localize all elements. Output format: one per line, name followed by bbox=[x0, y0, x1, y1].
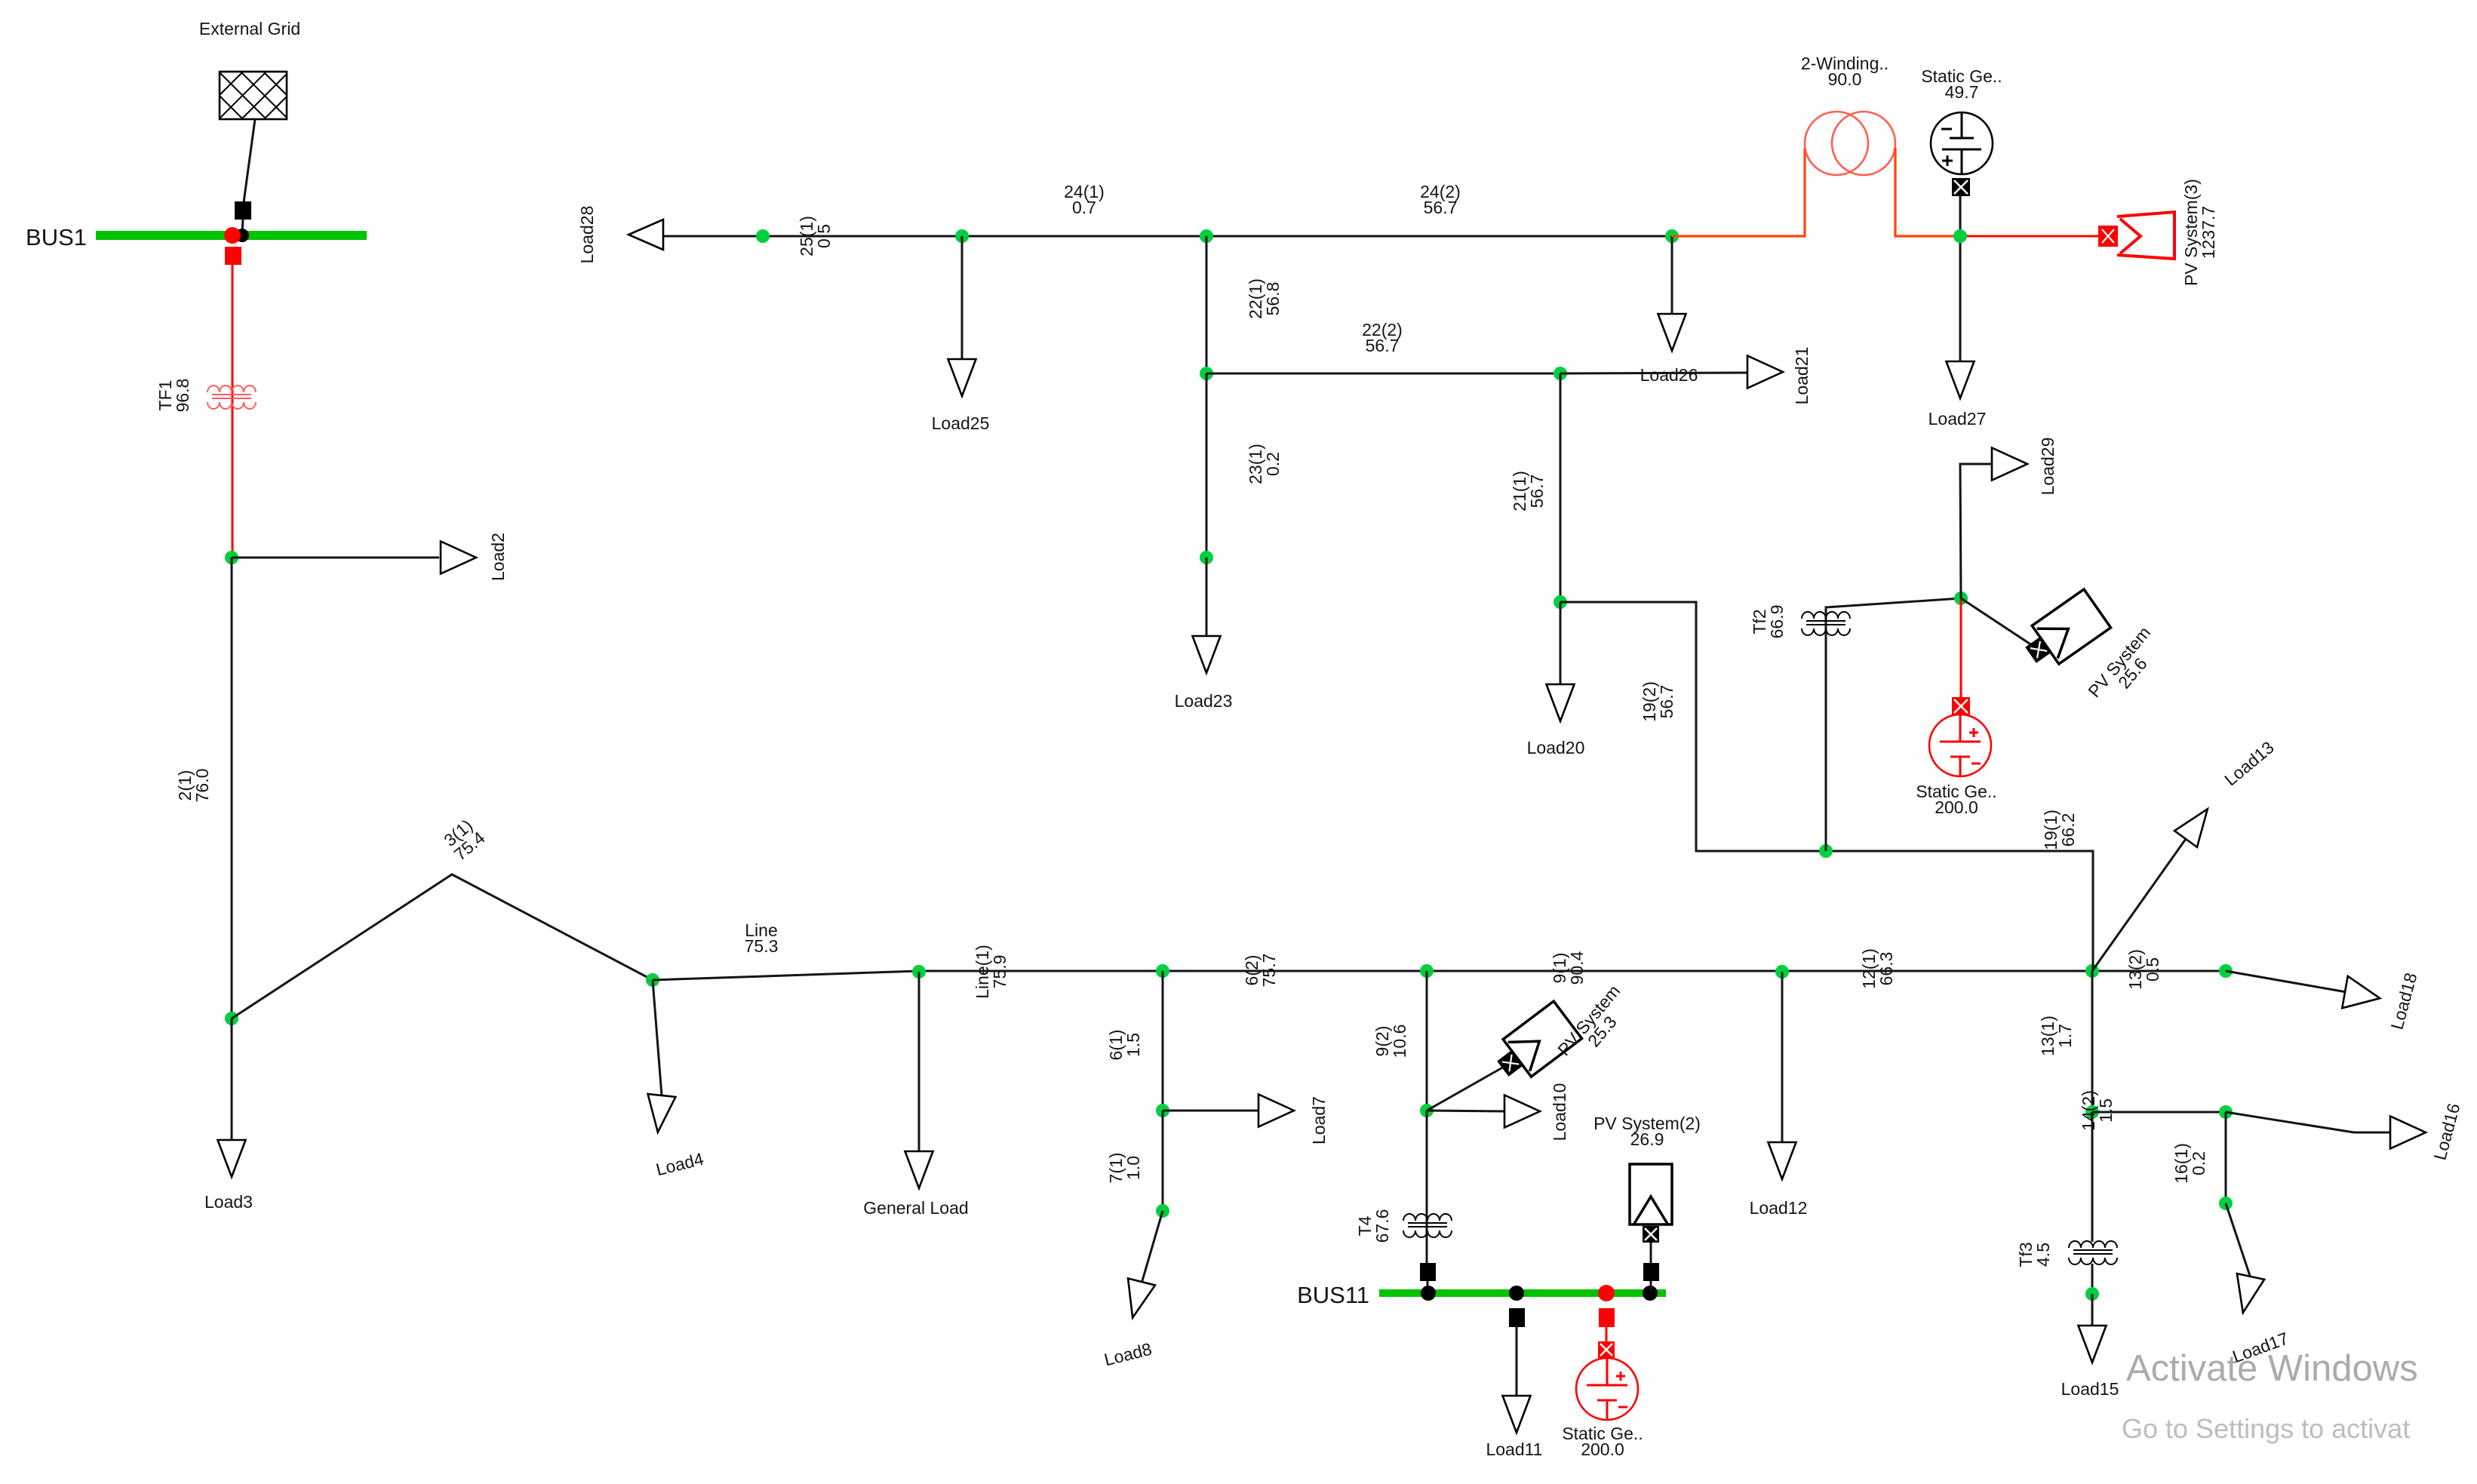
svg-text:Load25: Load25 bbox=[932, 413, 990, 433]
wire 14(2) bbox=[2092, 1111, 2226, 1114]
label T4 67.6 bbox=[1355, 1209, 1392, 1243]
load Load28 arrow bbox=[628, 220, 663, 250]
svg-text:Load26: Load26 bbox=[1640, 365, 1698, 385]
wire 23(1) bbox=[1206, 373, 1208, 558]
transformer TF1 bbox=[207, 386, 256, 409]
label 6(1) 1.5 bbox=[1106, 1030, 1143, 1061]
svg-text:200.0: 200.0 bbox=[1581, 1439, 1624, 1459]
load Load15 arrow bbox=[2079, 1326, 2107, 1363]
svg-text:56.7: 56.7 bbox=[1424, 198, 1458, 217]
node 19 bbox=[1954, 591, 1968, 605]
svg-text:96.8: 96.8 bbox=[173, 379, 192, 413]
node red BUS1 connection bbox=[224, 227, 241, 244]
wire Load12 bbox=[1781, 972, 1784, 1144]
load Load17 arrow bbox=[2230, 1274, 2264, 1316]
node 8 bbox=[1156, 1204, 1169, 1218]
wire 13(1) bbox=[2091, 971, 2094, 1112]
switch static gen 49.7 bbox=[1952, 178, 1970, 196]
load Load12 arrow bbox=[1769, 1142, 1796, 1179]
transformer Tf2 bbox=[1802, 612, 1850, 635]
wire static gen 200 red bbox=[1960, 598, 1962, 699]
node 13 junction bbox=[2085, 964, 2099, 978]
wire Load15 bbox=[2091, 1294, 2094, 1326]
node 22b bbox=[1200, 367, 1213, 380]
node 3 bbox=[225, 1012, 238, 1025]
wire orange transformer secondary bbox=[1895, 148, 1959, 236]
svg-text:Load2: Load2 bbox=[488, 533, 508, 581]
svg-text:0.2: 0.2 bbox=[2189, 1151, 2208, 1175]
terminal dot on BUS1 bbox=[235, 229, 249, 242]
svg-text:BUS1: BUS1 bbox=[26, 224, 87, 250]
svg-text:1.7: 1.7 bbox=[2055, 1024, 2075, 1048]
svg-text:66.9: 66.9 bbox=[1767, 605, 1787, 639]
wire PV System 25.6 bbox=[1961, 598, 2039, 650]
load Load25 arrow bbox=[948, 359, 976, 396]
svg-text:Load15: Load15 bbox=[2061, 1379, 2119, 1399]
wire 6(1) bbox=[1162, 971, 1164, 1111]
wire external grid to breaker bbox=[244, 119, 255, 202]
svg-text:0.5: 0.5 bbox=[2143, 957, 2162, 982]
svg-text:75.9: 75.9 bbox=[990, 955, 1010, 989]
wire Load27 bbox=[1959, 236, 1962, 363]
wire 7(1) bbox=[1162, 1111, 1164, 1211]
load Load23 arrow bbox=[1193, 636, 1221, 673]
wire PV System(2) bbox=[1650, 1263, 1652, 1292]
breaker T4 bbox=[1420, 1263, 1436, 1281]
load Load20 arrow bbox=[1547, 684, 1575, 721]
wire Load3 bbox=[231, 1019, 233, 1141]
wire Tf3 secondary bbox=[2091, 1264, 2094, 1294]
label 3(1) 75.4 bbox=[439, 814, 489, 864]
node 12 bbox=[1775, 965, 1789, 979]
wire Load23 bbox=[1206, 558, 1208, 638]
svg-text:Load11: Load11 bbox=[1486, 1439, 1542, 1459]
wire Tf3 primary bbox=[2091, 1112, 2094, 1242]
wire 21(1) bbox=[1560, 373, 1562, 602]
wire orange 24(2) to 2-winding transformer bbox=[1672, 148, 1805, 236]
svg-text:General Load: General Load bbox=[863, 1198, 968, 1218]
svg-text:Load29: Load29 bbox=[2038, 438, 2058, 496]
load Load18 arrow bbox=[2342, 976, 2383, 1015]
wire Load29 bbox=[1960, 464, 1993, 598]
svg-text:90.0: 90.0 bbox=[1828, 69, 1862, 89]
svg-text:0.7: 0.7 bbox=[1072, 198, 1096, 217]
load Load7 arrow bbox=[1258, 1095, 1294, 1127]
svg-text:Load10: Load10 bbox=[1550, 1083, 1569, 1141]
node 9 bbox=[1420, 964, 1434, 978]
switch static gen 200 bbox=[1952, 697, 1970, 715]
svg-text:Load23: Load23 bbox=[1175, 691, 1233, 711]
breaker PV System(2) bbox=[1643, 1263, 1659, 1281]
wire red to PV System(3) bbox=[1959, 235, 2101, 238]
label 23(1) 0.2 bbox=[1246, 444, 1283, 484]
svg-text:Go to Settings to activat: Go to Settings to activat bbox=[2122, 1413, 2410, 1444]
node Tf2 junction bbox=[1819, 844, 1833, 858]
static generator Static Ge.. 200.0 (mid) bbox=[1929, 714, 1991, 776]
node red BUS11 static gen bbox=[1598, 1285, 1615, 1301]
terminal dot BUS11 Load11 bbox=[1509, 1286, 1524, 1301]
load Load2 arrow bbox=[441, 542, 476, 574]
svg-text:4.5: 4.5 bbox=[2033, 1243, 2053, 1267]
svg-text:56.7: 56.7 bbox=[1527, 475, 1547, 508]
label 13(2) 0.5 bbox=[2125, 949, 2162, 990]
node 26 bbox=[1953, 229, 1967, 243]
node 5 General Load bbox=[912, 965, 926, 979]
svg-text:10.6: 10.6 bbox=[1390, 1025, 1409, 1058]
label 22(1) 56.8 bbox=[1246, 278, 1283, 319]
wire Line 75.3 bbox=[653, 971, 919, 980]
node 24 Load26 tap bbox=[1665, 229, 1679, 243]
wire Load16 bbox=[2226, 1112, 2392, 1132]
load Load13 wire bbox=[2092, 839, 2186, 971]
svg-text:49.7: 49.7 bbox=[1945, 82, 1979, 102]
wire static gen 49.7 to node bbox=[1959, 196, 1962, 236]
wire General Load bbox=[918, 972, 920, 1153]
label 9(2) 10.6 bbox=[1372, 1025, 1409, 1058]
load Load29 arrow bbox=[1992, 448, 2027, 481]
svg-text:56.8: 56.8 bbox=[1263, 282, 1283, 316]
node 16 bbox=[2219, 1105, 2233, 1119]
wire 22(2) bbox=[1206, 373, 1560, 375]
bus BUS1 bbox=[96, 231, 367, 240]
wire to PV System(1) bbox=[1427, 1063, 1510, 1111]
label 16(1) 0.2 bbox=[2171, 1143, 2208, 1184]
svg-text:66.3: 66.3 bbox=[1876, 952, 1896, 986]
transformer 2-Winding.. circles bbox=[1805, 112, 1868, 175]
svg-text:1.5: 1.5 bbox=[2096, 1098, 2116, 1123]
breaker static gen red bbox=[1599, 1308, 1615, 1327]
wire static gen red bbox=[1606, 1327, 1608, 1344]
node 25 bbox=[756, 229, 770, 243]
switch PV System(2) bbox=[1643, 1226, 1659, 1243]
wire Load11 bbox=[1516, 1327, 1518, 1397]
label 14(2) 1.5 bbox=[2079, 1090, 2116, 1131]
load Load21 wire bbox=[1560, 373, 1749, 373]
node 10 bbox=[1420, 1104, 1434, 1117]
label TF1 96.8 bbox=[155, 379, 192, 413]
node 20 bbox=[1554, 595, 1567, 609]
node 14 bbox=[2085, 1105, 2099, 1119]
node 21 tap bbox=[1554, 367, 1567, 380]
svg-text:76.0: 76.0 bbox=[192, 769, 212, 803]
label 2(1) 76.0 bbox=[175, 769, 212, 803]
wire 16(1) bbox=[2225, 1112, 2227, 1203]
switch static gen red bbox=[1598, 1341, 1615, 1358]
label Tf2 66.9 bbox=[1750, 605, 1787, 639]
wire Load7 bbox=[1163, 1110, 1260, 1112]
svg-text:Load3: Load3 bbox=[204, 1192, 253, 1212]
svg-text:Load12: Load12 bbox=[1750, 1198, 1808, 1218]
svg-text:1.0: 1.0 bbox=[1123, 1156, 1143, 1180]
svg-text:1.5: 1.5 bbox=[1123, 1033, 1143, 1057]
wire T4 primary bbox=[1426, 1111, 1428, 1263]
node 22 bbox=[1200, 229, 1213, 243]
node 23 bbox=[1200, 551, 1213, 564]
svg-text:BUS11: BUS11 bbox=[1297, 1282, 1369, 1308]
label PV System 25.3 bbox=[1554, 981, 1637, 1071]
breaker external grid bbox=[235, 201, 251, 220]
load Load3 arrow bbox=[218, 1140, 246, 1177]
svg-text:56.7: 56.7 bbox=[1366, 336, 1400, 355]
load Load11 arrow bbox=[1503, 1396, 1531, 1433]
wire PV2 stub bbox=[1650, 1241, 1652, 1263]
external grid symbol bbox=[220, 72, 287, 119]
load Load26 arrow bbox=[1658, 314, 1686, 351]
wire Load20 bbox=[1560, 602, 1562, 686]
wire main feeder middle bbox=[919, 970, 2226, 972]
label 25(1) 0.5 bbox=[797, 216, 834, 257]
breaker Load11 bbox=[1509, 1308, 1525, 1327]
node 2 bbox=[225, 551, 238, 564]
static generator Static Ge.. 200.0 (BUS11) bbox=[1576, 1358, 1638, 1420]
svg-text:26.9: 26.9 bbox=[1630, 1129, 1664, 1149]
svg-text:Activate Windows: Activate Windows bbox=[2126, 1348, 2418, 1389]
label 19(1) 66.2 bbox=[2041, 810, 2078, 850]
wire top feeder bbox=[663, 235, 1672, 238]
node 18 bbox=[2219, 964, 2233, 978]
node Load25 bbox=[955, 229, 969, 243]
wire 3(1) bbox=[232, 874, 653, 1019]
static generator Static Ge.. 49.7 bbox=[1931, 112, 1993, 174]
svg-text:Load27: Load27 bbox=[1928, 409, 1987, 429]
wire 2(1) bbox=[231, 558, 233, 1019]
wire Load2 bbox=[232, 557, 439, 559]
node 4 bbox=[646, 973, 659, 987]
load Load10 arrow bbox=[1504, 1095, 1540, 1128]
wire Tf2 bbox=[1826, 598, 1961, 851]
load Load4 arrow bbox=[644, 1094, 675, 1134]
node 7 bbox=[1156, 1104, 1169, 1117]
transformer Tf3 bbox=[2069, 1241, 2117, 1264]
load Load16 arrow bbox=[2390, 1117, 2426, 1149]
load Load27 arrow bbox=[1947, 361, 1975, 398]
svg-text:1237.7: 1237.7 bbox=[2199, 206, 2218, 259]
pv system PV System(2) bbox=[1630, 1164, 1672, 1224]
wire Load4 bbox=[653, 980, 662, 1095]
label 9(1) 90.4 bbox=[1550, 951, 1587, 985]
wire Load10 bbox=[1427, 1111, 1506, 1111]
wire Load8 bbox=[1142, 1211, 1163, 1283]
pv system PV System(1) bbox=[1490, 1001, 1582, 1086]
svg-text:Load28: Load28 bbox=[577, 206, 597, 264]
svg-text:56.7: 56.7 bbox=[1657, 685, 1676, 719]
label 7(1) 1.0 bbox=[1106, 1153, 1143, 1184]
svg-text:200.0: 200.0 bbox=[1935, 797, 1978, 817]
wire Load25 bbox=[961, 236, 963, 361]
terminal dot BUS11 T4 bbox=[1421, 1286, 1436, 1301]
wire Load18 bbox=[2226, 971, 2346, 992]
wire 22(1) bbox=[1206, 236, 1208, 373]
label PV System 25.6 bbox=[2084, 622, 2168, 712]
load Load21 arrow bbox=[1747, 356, 1783, 389]
wire TF1 feeder red bbox=[232, 265, 234, 558]
load Load8 arrow bbox=[1119, 1279, 1155, 1321]
transformer T4 bbox=[1403, 1214, 1452, 1237]
wire 9(2) bbox=[1426, 971, 1428, 1111]
svg-text:Load20: Load20 bbox=[1527, 738, 1585, 757]
wire 19(2) bbox=[1560, 602, 2093, 971]
breaker TF1 red bbox=[225, 247, 241, 265]
node 17 bbox=[2219, 1197, 2233, 1210]
svg-text:External Grid: External Grid bbox=[199, 19, 300, 38]
terminal dot BUS11 PV System(2) bbox=[1643, 1286, 1658, 1301]
svg-text:Load7: Load7 bbox=[1309, 1096, 1329, 1144]
pv system PV System 25.6 bbox=[2018, 589, 2110, 674]
node 6 bbox=[1156, 964, 1169, 978]
label PV System(3) 1237.7 bbox=[2181, 179, 2218, 286]
svg-text:75.7: 75.7 bbox=[1259, 954, 1279, 988]
label 6(2) 75.7 bbox=[1242, 954, 1279, 988]
label 19(2) 56.7 bbox=[1640, 681, 1676, 722]
svg-text:67.6: 67.6 bbox=[1372, 1209, 1392, 1243]
wire Load26 bbox=[1671, 236, 1673, 315]
wire breaker to BUS1 bbox=[242, 220, 243, 232]
load Load13 arrow bbox=[2174, 800, 2219, 846]
bus BUS11 bbox=[1379, 1289, 1666, 1297]
svg-text:0.5: 0.5 bbox=[814, 224, 834, 248]
label Line(1) 75.9 bbox=[973, 945, 1010, 999]
wire T4 to BUS11 bbox=[1427, 1281, 1429, 1292]
label 21(1) 56.7 bbox=[1510, 471, 1547, 512]
label Tf3 4.5 bbox=[2016, 1242, 2053, 1267]
svg-text:90.4: 90.4 bbox=[1567, 951, 1587, 985]
label 13(1) 1.7 bbox=[2038, 1015, 2075, 1056]
svg-text:75.3: 75.3 bbox=[745, 936, 779, 956]
node 15 bbox=[2085, 1287, 2099, 1301]
wire Load17 bbox=[2226, 1203, 2251, 1278]
svg-text:0.2: 0.2 bbox=[1263, 452, 1283, 476]
svg-text:Load21: Load21 bbox=[1792, 347, 1812, 405]
pv system PV System(3) bbox=[2100, 212, 2174, 259]
svg-text:66.2: 66.2 bbox=[2058, 813, 2078, 847]
load General Load arrow bbox=[905, 1151, 933, 1188]
label 12(1) 66.3 bbox=[1859, 948, 1896, 989]
